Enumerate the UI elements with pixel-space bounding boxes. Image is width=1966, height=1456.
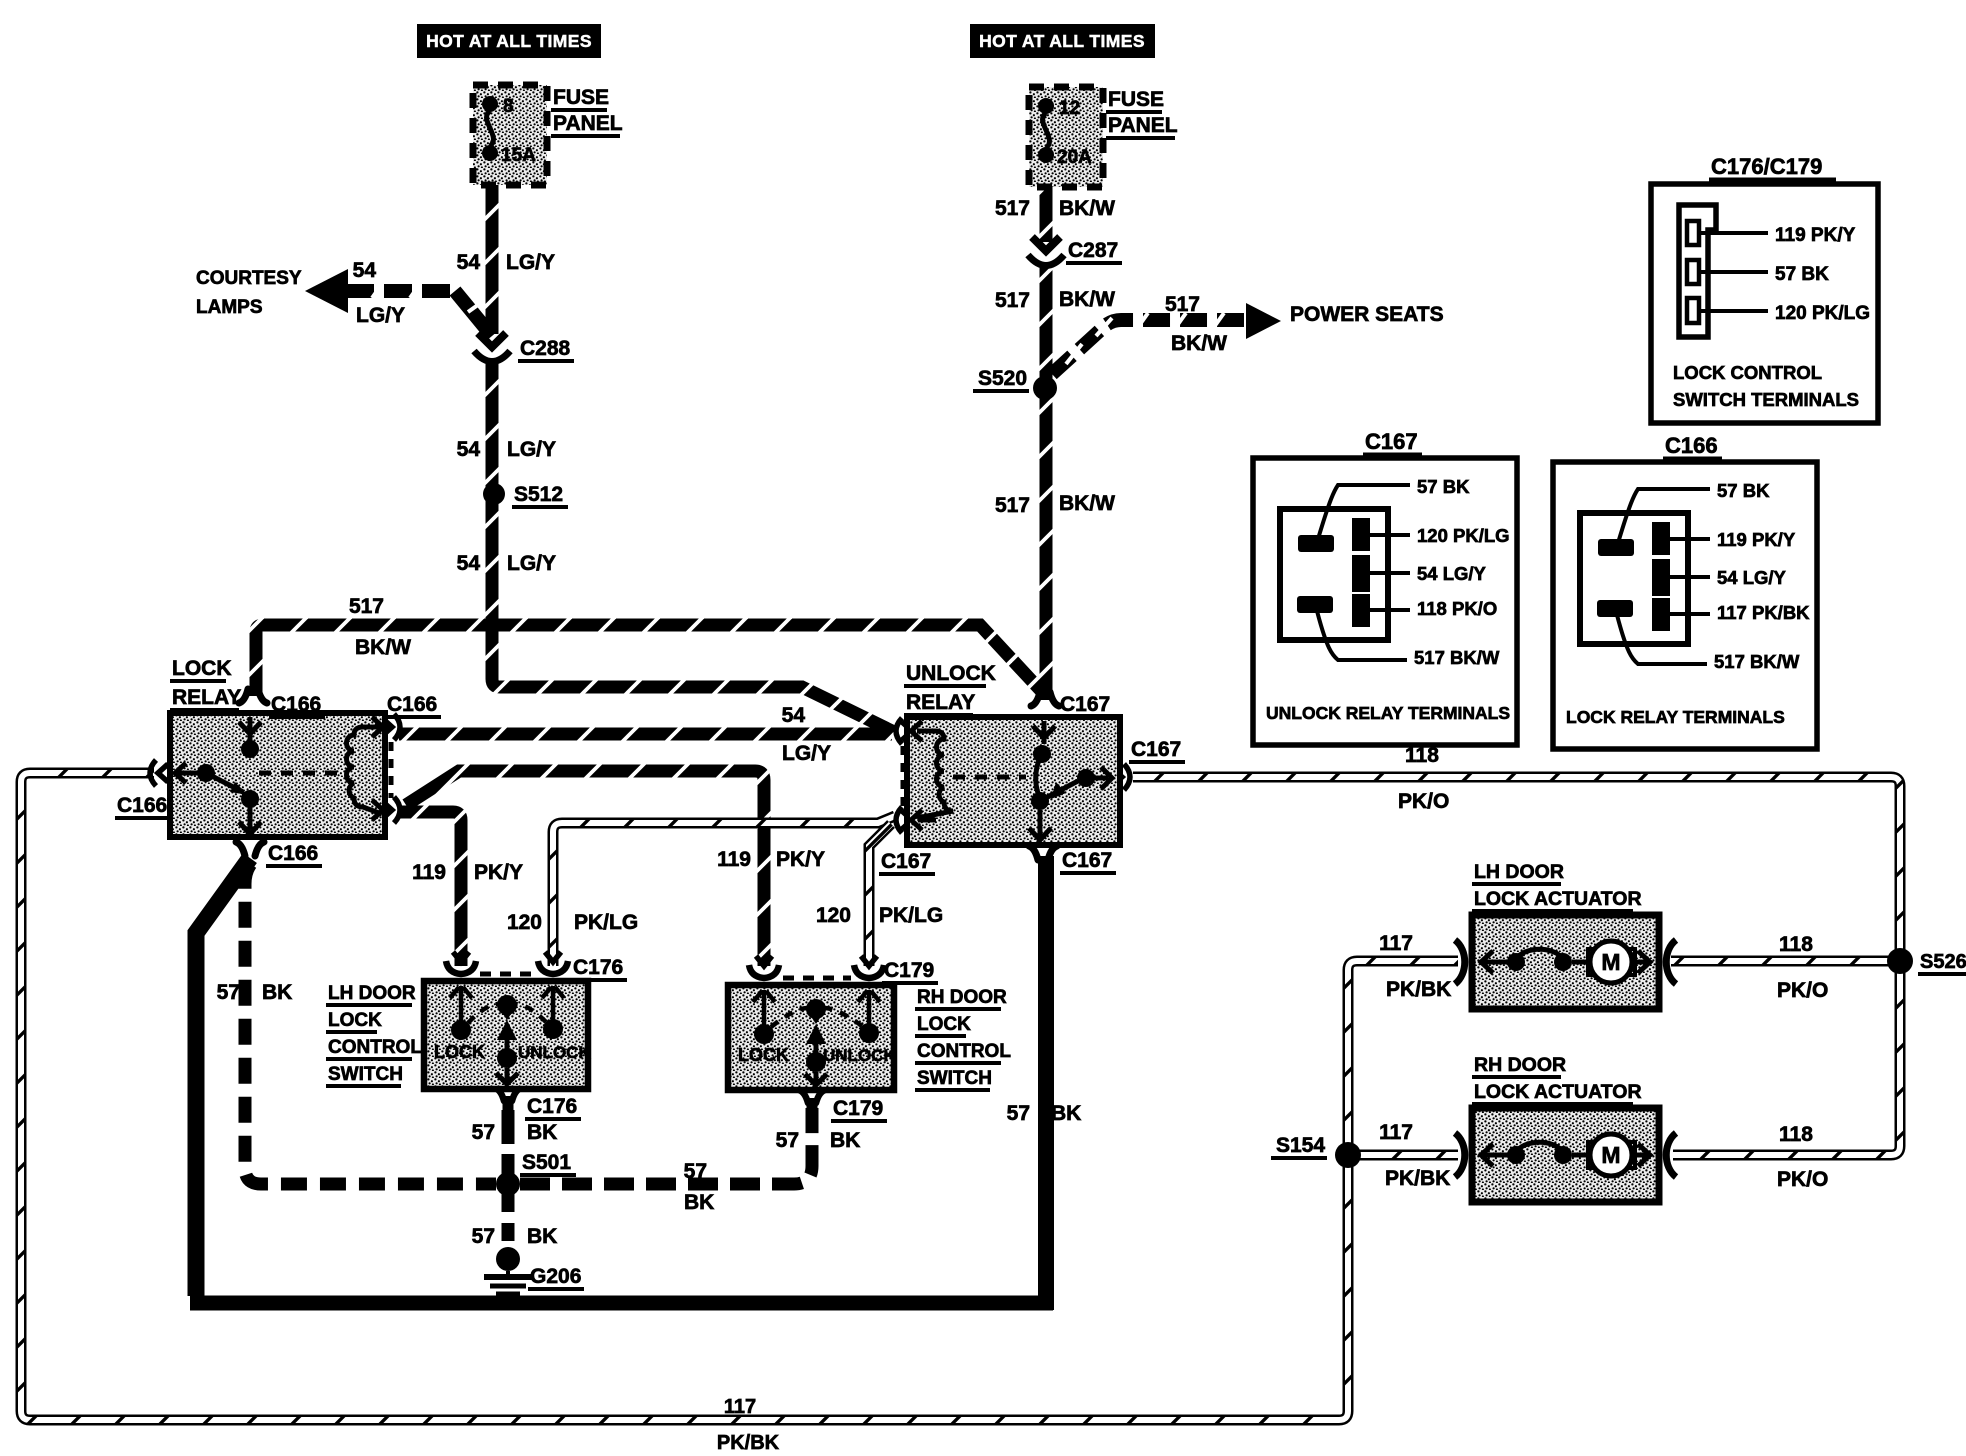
svg-text:54: 54 (457, 438, 481, 461)
wire 54 LG/Y fuse panel to C288 (486, 178, 499, 334)
svg-text:517 BK/W: 517 BK/W (1714, 651, 1800, 672)
connector C166 lock relay right bottom (382, 801, 392, 819)
svg-text:C288: C288 (520, 337, 571, 360)
svg-text:PK/O: PK/O (1777, 1168, 1828, 1191)
connector C176 LH switch top right (545, 952, 561, 962)
svg-text:S512: S512 (514, 483, 563, 506)
svg-text:57: 57 (217, 981, 240, 1004)
svg-text:BK: BK (262, 981, 292, 1004)
svg-text:BK: BK (527, 1121, 557, 1144)
svg-text:117: 117 (1379, 932, 1413, 955)
splice S512 (483, 483, 505, 505)
svg-text:LOCK: LOCK (172, 657, 232, 680)
svg-text:RH DOOR: RH DOOR (1474, 1054, 1566, 1076)
svg-text:UNLOCK: UNLOCK (906, 662, 996, 685)
wire 120 PK/LG LH switch to unlock relay (553, 816, 895, 966)
svg-text:LOCK RELAY TERMINALS: LOCK RELAY TERMINALS (1566, 707, 1785, 727)
svg-text:BK: BK (684, 1191, 714, 1214)
svg-text:PK/BK: PK/BK (1386, 978, 1451, 1001)
wire 118 PK/O LH actuator to S526 (1671, 956, 1898, 967)
wire 54 LG/Y C288 to S512 (486, 362, 499, 488)
svg-text:PK/LG: PK/LG (879, 904, 943, 927)
svg-text:LOCK ACTUATOR: LOCK ACTUATOR (1474, 1081, 1642, 1103)
svg-text:57 BK: 57 BK (1717, 480, 1770, 501)
svg-text:BK: BK (1051, 1102, 1081, 1125)
pin 57 BK (1701, 270, 1768, 274)
dashed connector line unlock relay left (901, 746, 906, 806)
connector C166 lock relay left (158, 764, 168, 782)
svg-text:54: 54 (457, 552, 481, 575)
svg-text:C166: C166 (268, 842, 318, 865)
wire 57 BK dashed lock relay to S501 (245, 864, 496, 1184)
unlock relay box (907, 717, 1120, 845)
svg-text:C166: C166 (271, 693, 321, 716)
svg-text:517: 517 (995, 197, 1030, 220)
svg-text:BK/W: BK/W (355, 636, 411, 659)
svg-text:C176: C176 (527, 1095, 577, 1118)
svg-text:LG/Y: LG/Y (356, 304, 405, 327)
connector C179 RH switch top left (756, 956, 772, 966)
svg-text:117: 117 (724, 1396, 756, 1418)
connector C167 unlock relay right (1112, 768, 1122, 786)
svg-text:517 BK/W: 517 BK/W (1414, 647, 1500, 668)
wire 517 BK/W fuse panel 2 to C287 (1040, 182, 1053, 242)
svg-text:118: 118 (1779, 1123, 1813, 1146)
svg-text:57: 57 (684, 1160, 707, 1183)
connector C176 LH switch top left (453, 952, 469, 962)
connector C167 unlock relay left bottom (902, 811, 912, 829)
svg-text:12: 12 (1059, 98, 1080, 119)
svg-text:LH DOOR: LH DOOR (1474, 861, 1564, 883)
connector C179 RH switch bottom (799, 1090, 808, 1103)
wire 57 BK S501 to G206 (502, 1194, 515, 1248)
svg-text:C179: C179 (884, 959, 934, 982)
svg-text:C167: C167 (1062, 849, 1112, 872)
svg-text:517: 517 (995, 494, 1030, 517)
connector C179 RH switch top right (861, 956, 877, 966)
svg-text:M: M (1601, 1142, 1620, 1168)
svg-text:54 LG/Y: 54 LG/Y (1717, 567, 1787, 588)
svg-text:BK/W: BK/W (1059, 197, 1115, 220)
svg-text:PK/Y: PK/Y (474, 861, 523, 884)
splice S526 (1887, 948, 1913, 974)
connector C166 lock relay top (239, 689, 248, 703)
svg-text:C166: C166 (1665, 433, 1718, 458)
svg-text:C167: C167 (1131, 738, 1181, 761)
hot at all times box 1 (417, 24, 601, 58)
svg-text:UNLOCK: UNLOCK (823, 1046, 896, 1065)
svg-text:20A: 20A (1057, 147, 1092, 168)
fuse panel 2 (1029, 87, 1103, 187)
svg-text:C167: C167 (1365, 429, 1418, 454)
connector C167 unlock relay left top (902, 722, 912, 740)
svg-text:120: 120 (816, 904, 851, 927)
svg-text:BK/W: BK/W (1059, 288, 1115, 311)
svg-text:517: 517 (1165, 293, 1200, 316)
C176/C179 lock control switch terminals box (1651, 184, 1878, 423)
svg-text:PK/BK: PK/BK (717, 1432, 780, 1454)
wire 54 LG/Y S512 down across to unlock relay coil (492, 498, 894, 732)
hot at all times box 2 (970, 24, 1155, 58)
pin 120 PK/LG (1701, 309, 1768, 313)
svg-text:SWITCH: SWITCH (917, 1068, 992, 1089)
svg-text:54: 54 (782, 704, 806, 727)
svg-text:57: 57 (1007, 1102, 1030, 1125)
svg-text:PANEL: PANEL (1108, 114, 1178, 137)
svg-text:120 PK/LG: 120 PK/LG (1775, 303, 1870, 324)
svg-text:120: 120 (507, 911, 542, 934)
svg-text:517: 517 (995, 289, 1030, 312)
wire 57 BK lock relay to unlock relay (solid) (196, 858, 250, 1296)
svg-text:RH DOOR: RH DOOR (917, 987, 1007, 1008)
svg-text:LAMPS: LAMPS (196, 297, 263, 318)
svg-text:119: 119 (717, 848, 751, 871)
svg-text:C176: C176 (573, 956, 623, 979)
svg-text:119 PK/Y: 119 PK/Y (1775, 225, 1856, 246)
svg-text:FUSE: FUSE (553, 86, 609, 109)
RH door lock control switch box (728, 985, 894, 1090)
splice S154 (1335, 1142, 1361, 1168)
LH door lock control switch box (424, 981, 588, 1089)
svg-text:PK/BK: PK/BK (1385, 1167, 1450, 1190)
splice S520 (1033, 376, 1057, 400)
svg-text:BK: BK (830, 1129, 860, 1152)
svg-text:LG/Y: LG/Y (506, 251, 555, 274)
svg-text:POWER SEATS: POWER SEATS (1290, 303, 1444, 326)
svg-text:HOT AT ALL TIMES: HOT AT ALL TIMES (979, 31, 1145, 51)
svg-text:UNLOCK RELAY TERMINALS: UNLOCK RELAY TERMINALS (1266, 703, 1510, 723)
svg-text:FUSE: FUSE (1108, 88, 1164, 111)
svg-text:517: 517 (349, 595, 384, 618)
svg-text:LG/Y: LG/Y (507, 438, 556, 461)
svg-text:LOCK: LOCK (434, 1042, 485, 1062)
wire 517 BK/W S520 to unlock relay (1040, 394, 1053, 700)
svg-text:PK/LG: PK/LG (574, 911, 638, 934)
svg-text:CONTROL: CONTROL (328, 1037, 422, 1058)
connector C287 (1032, 237, 1060, 251)
svg-text:118 PK/O: 118 PK/O (1417, 598, 1497, 619)
svg-text:PANEL: PANEL (553, 112, 623, 135)
svg-text:S520: S520 (978, 367, 1027, 390)
wire 117 PK/BK S154 to RH actuator (1358, 1150, 1458, 1161)
svg-text:8: 8 (503, 96, 514, 117)
svg-text:LH DOOR: LH DOOR (328, 983, 416, 1004)
unlock relay internals (918, 729, 936, 734)
lock relay box (170, 713, 385, 837)
splice S501 (496, 1172, 520, 1196)
svg-text:C167: C167 (1060, 693, 1110, 716)
svg-text:HOT AT ALL TIMES: HOT AT ALL TIMES (426, 31, 592, 51)
pin 119 PK/Y (1701, 231, 1768, 235)
svg-text:LOCK: LOCK (917, 1014, 971, 1035)
svg-text:54: 54 (457, 251, 481, 274)
svg-text:C167: C167 (881, 850, 931, 873)
svg-text:UNLOCK: UNLOCK (518, 1043, 591, 1062)
wire 120 PK/LG unlock relay to RH switch (869, 824, 891, 966)
RH door lock actuator box (1472, 1108, 1659, 1202)
svg-text:M: M (1601, 949, 1620, 975)
svg-text:PK/Y: PK/Y (776, 848, 825, 871)
RH door lock control switch internals (762, 990, 767, 1026)
svg-text:RELAY: RELAY (906, 691, 975, 714)
wire 119 PK/Y lock relay to LH door lock control switch (398, 812, 461, 966)
svg-text:PK/O: PK/O (1398, 790, 1449, 813)
RH door lock actuator internals (1480, 1153, 1509, 1158)
svg-text:LOCK ACTUATOR: LOCK ACTUATOR (1474, 888, 1642, 910)
wire 119 PK/Y lock relay to RH door lock control switch (406, 771, 764, 966)
svg-text:57 BK: 57 BK (1417, 476, 1470, 497)
wire 54 LG/Y lock relay to unlock relay (399, 728, 892, 741)
svg-text:118: 118 (1779, 933, 1813, 956)
svg-text:LOCK: LOCK (328, 1010, 382, 1031)
svg-text:BK/W: BK/W (1171, 332, 1227, 355)
svg-text:PK/O: PK/O (1777, 979, 1828, 1002)
svg-text:C287: C287 (1068, 239, 1118, 262)
svg-text:117 PK/BK: 117 PK/BK (1717, 602, 1810, 623)
wire 54 LG/Y to courtesy lamps (dashed) (346, 284, 458, 298)
connector C288 (478, 333, 506, 347)
svg-text:57: 57 (472, 1121, 495, 1144)
svg-text:117: 117 (1379, 1121, 1413, 1144)
wire 57 BK LH switch to S501 (502, 1110, 515, 1176)
svg-text:C179: C179 (833, 1097, 883, 1120)
svg-text:COURTESY: COURTESY (196, 268, 302, 289)
svg-text:G206: G206 (530, 1265, 581, 1288)
svg-text:C166: C166 (387, 693, 437, 716)
svg-text:SWITCH: SWITCH (328, 1064, 403, 1085)
svg-text:118: 118 (1405, 744, 1439, 767)
wire 117 PK/BK lock relay loop to S154 (21, 773, 1348, 1420)
svg-text:BK/W: BK/W (1059, 492, 1115, 515)
svg-text:CONTROL: CONTROL (917, 1041, 1011, 1062)
svg-text:54: 54 (353, 259, 377, 282)
LH door lock actuator internals (1480, 960, 1509, 965)
fuse panel 1 (473, 85, 547, 185)
connector C167 unlock relay bottom (1029, 846, 1038, 860)
dashed connector line lock relay right (389, 742, 394, 798)
svg-text:15A: 15A (501, 145, 536, 166)
svg-text:S154: S154 (1276, 1134, 1325, 1157)
svg-text:57: 57 (776, 1129, 799, 1152)
wire 517 BK/W to power seats (dashed) (1052, 320, 1244, 374)
connector C166 lock relay bottom (236, 842, 245, 856)
wire 517 BK/W C287 to S520 (1040, 266, 1053, 382)
svg-text:LOCK: LOCK (738, 1045, 789, 1065)
svg-text:S526: S526 (1920, 951, 1966, 973)
svg-text:RELAY: RELAY (172, 686, 241, 709)
svg-text:57 BK: 57 BK (1775, 264, 1829, 285)
svg-text:LG/Y: LG/Y (507, 552, 556, 575)
connector C176 LH switch bottom (495, 1088, 504, 1101)
svg-text:57: 57 (472, 1225, 495, 1248)
switch connector side view (1679, 205, 1716, 337)
wire 117 PK/BK S154 to LH actuator (1348, 961, 1458, 1144)
svg-text:119 PK/Y: 119 PK/Y (1717, 529, 1796, 550)
svg-text:S501: S501 (522, 1151, 571, 1174)
wire 57 BK dashed S501 to RH switch (520, 1108, 812, 1184)
LH door lock actuator box (1472, 915, 1659, 1009)
svg-text:LG/Y: LG/Y (782, 742, 831, 765)
svg-text:C176/C179: C176/C179 (1711, 154, 1822, 179)
wire 118 PK/O unlock relay to S526 to RH actuator (1133, 777, 1900, 1155)
svg-text:C166: C166 (117, 794, 167, 817)
connector C166 lock relay right top (382, 718, 392, 736)
svg-text:SWITCH TERMINALS: SWITCH TERMINALS (1673, 389, 1859, 410)
connector C167 unlock relay top (1031, 692, 1040, 706)
svg-text:119: 119 (412, 861, 446, 884)
svg-text:BK: BK (527, 1225, 557, 1248)
wire 517 BK/W unlock relay to lock relay (256, 625, 1044, 696)
svg-text:LOCK CONTROL: LOCK CONTROL (1673, 362, 1822, 383)
ground G206 (496, 1247, 520, 1271)
svg-text:54 LG/Y: 54 LG/Y (1417, 563, 1487, 584)
LH door lock control switch internals (459, 986, 464, 1022)
lock relay internals (248, 717, 253, 741)
svg-text:120 PK/LG: 120 PK/LG (1417, 525, 1510, 546)
